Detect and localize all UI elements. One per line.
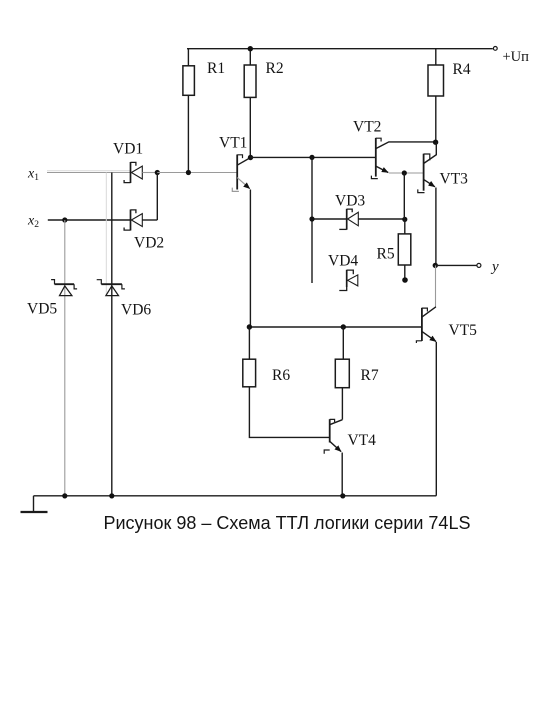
- resistor R6: [243, 327, 330, 437]
- wire to y terminal: [435, 264, 477, 266]
- wire y node down to VT5: [435, 265, 437, 307]
- node dot VT2 collector / R4: [433, 140, 438, 145]
- node dot R7 top: [341, 324, 346, 329]
- node dot VT2 emitter / VT3 base: [402, 170, 407, 175]
- svg-text:R7: R7: [361, 367, 379, 384]
- node dot collector row / VD3 branch: [309, 155, 314, 160]
- node dot VD3 left: [309, 216, 314, 221]
- svg-text:R4: R4: [453, 61, 471, 78]
- svg-text:+Uп: +Uп: [503, 49, 530, 65]
- node dot VT4 emitter / rail: [340, 493, 345, 498]
- transistor VT3: [418, 142, 437, 265]
- wire VD6 echo: [105, 173, 107, 297]
- node dot VT1 emitter / R6: [247, 324, 252, 329]
- wire base row to VT1: [157, 172, 237, 174]
- diode VD4 (floating): [339, 270, 357, 291]
- wire VD6 vertical: [111, 173, 113, 496]
- svg-text:VT2: VT2: [353, 119, 381, 136]
- resistor R7: [335, 327, 349, 420]
- terminal y circle: [477, 263, 481, 267]
- transistor VT2: [371, 138, 435, 179]
- node dot R5 bottom: [402, 277, 408, 283]
- transistor VT5: [416, 307, 436, 496]
- svg-text:VD1: VD1: [113, 141, 143, 158]
- svg-text:y: y: [490, 259, 499, 275]
- diode VD5: [51, 280, 77, 296]
- resistor R2: [244, 49, 256, 158]
- svg-text:VT3: VT3: [440, 171, 469, 188]
- wire collector row to VT2 base: [250, 156, 375, 158]
- ground symbol: [21, 496, 48, 512]
- svg-text:VD3: VD3: [335, 193, 365, 210]
- wire x2 input: [48, 219, 131, 221]
- wire VD3 branch vertical: [311, 157, 313, 283]
- node dot top rail / R2: [248, 46, 253, 51]
- diode VD2: [124, 210, 157, 231]
- svg-text:R5: R5: [377, 246, 395, 263]
- node dot output y: [433, 263, 438, 268]
- node dot VT1 collector / R2: [248, 155, 253, 160]
- resistor R5: [398, 219, 411, 280]
- node dot x2 / VD5: [62, 217, 67, 222]
- resistor R4: [428, 49, 444, 143]
- wire +Uп top supply rail: [187, 48, 493, 50]
- svg-text:Рисунок 98 – Схема ТТЛ логики: Рисунок 98 – Схема ТТЛ логики серии 74LS: [104, 513, 471, 533]
- svg-text:VD2: VD2: [134, 235, 164, 252]
- svg-text:VD6: VD6: [121, 302, 151, 319]
- wire VD5 vertical: [64, 220, 66, 496]
- node dot VD5 / rail: [62, 493, 67, 498]
- svg-text:VT1: VT1: [219, 135, 247, 152]
- diode VD6: [97, 280, 125, 296]
- node dot VD6 / rail: [109, 493, 114, 498]
- wire VT5 base row: [249, 326, 422, 328]
- svg-text:R6: R6: [272, 367, 290, 384]
- wire VD1 node down to VD2: [156, 173, 158, 221]
- resistor R1: [183, 49, 195, 173]
- wire x1 echo: [47, 170, 130, 172]
- svg-text:x2: x2: [27, 214, 39, 231]
- svg-text:VT5: VT5: [449, 322, 478, 339]
- wire VT3 base node down to VD3/R5: [403, 173, 405, 219]
- svg-text:VD4: VD4: [328, 253, 358, 270]
- transistor VT4: [324, 419, 342, 496]
- svg-text:R2: R2: [266, 60, 284, 77]
- wire x1 input: [47, 172, 130, 174]
- svg-text:R1: R1: [207, 60, 225, 77]
- diode VD3: [312, 209, 405, 230]
- svg-text:VT4: VT4: [348, 432, 377, 449]
- diode VD1: [124, 162, 157, 183]
- transistor VT1: [232, 155, 250, 327]
- node dot VD1 anode: [155, 170, 160, 175]
- node dot VD3 right / R5: [402, 217, 407, 222]
- node dot R1 / base row: [186, 170, 191, 175]
- ground rail: [34, 495, 437, 497]
- svg-text:VD5: VD5: [27, 301, 57, 318]
- terminal +Uп circle: [493, 47, 497, 51]
- svg-text:x1: x1: [27, 167, 39, 184]
